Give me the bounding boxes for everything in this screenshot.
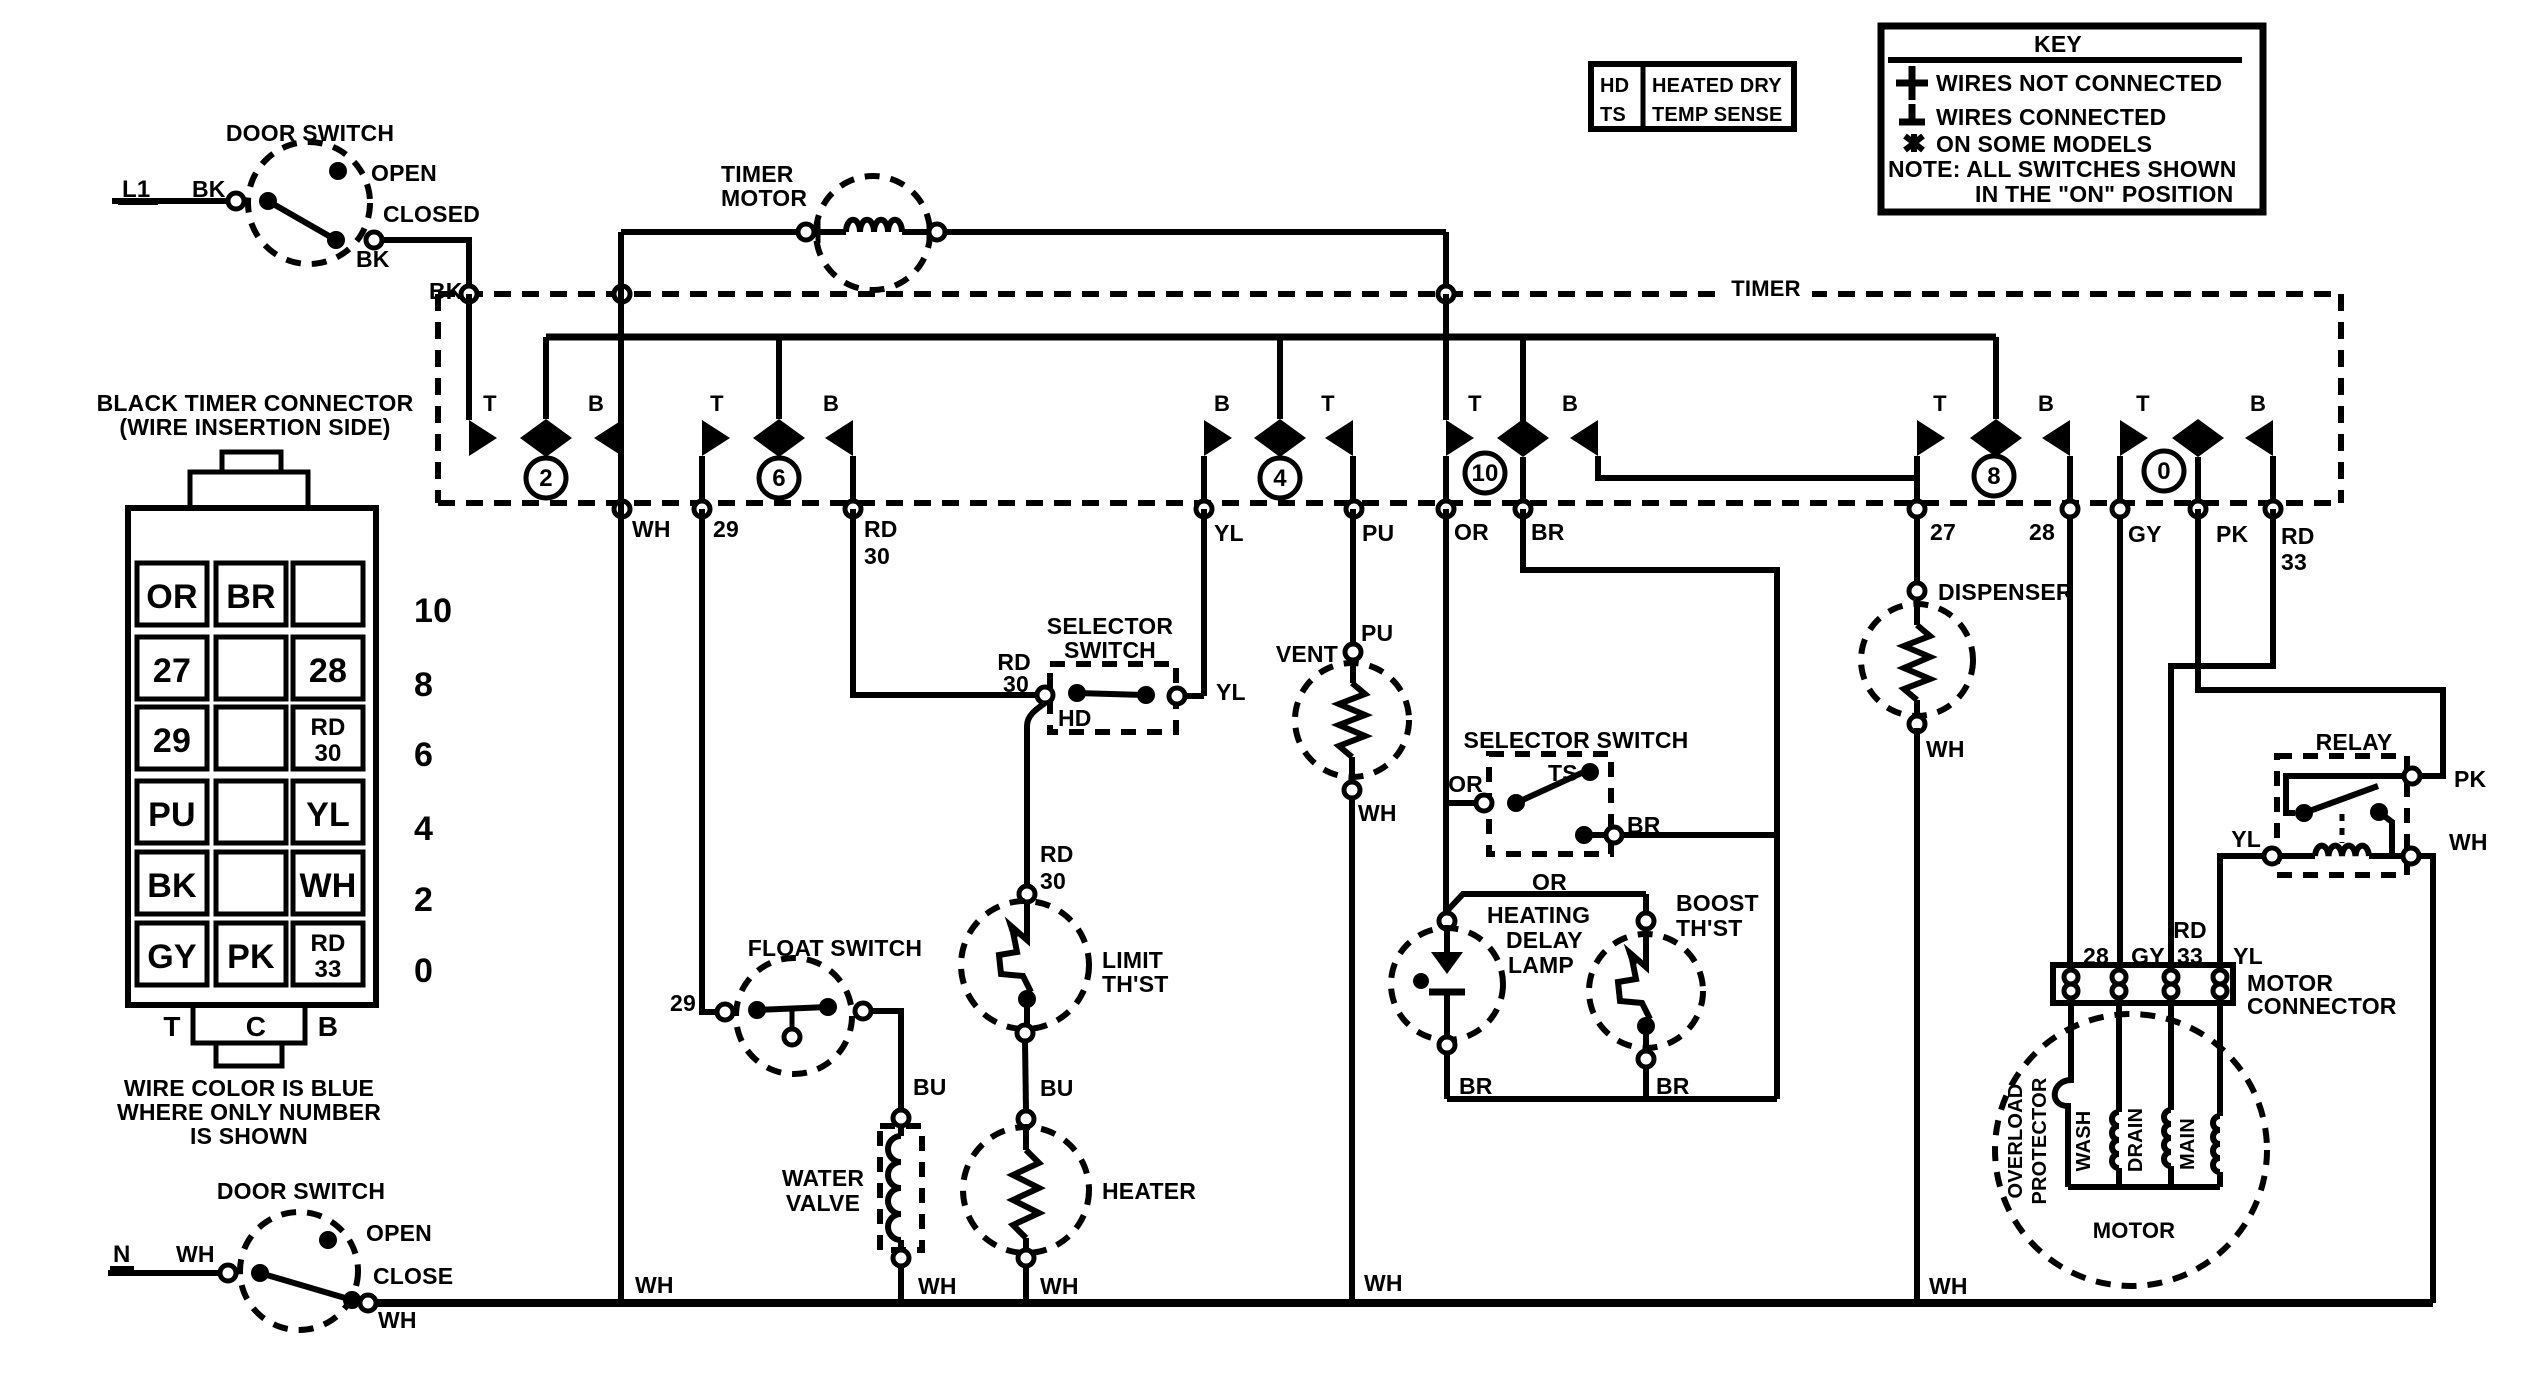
- relay coil: [2264, 853, 2315, 859]
- float switch dashed body: [736, 958, 852, 1074]
- svg-text:10: 10: [414, 592, 452, 630]
- svg-text:N: N: [113, 1241, 131, 1268]
- cam group 6 T terminal (29): [702, 420, 730, 456]
- junction RD 33: [2265, 501, 2281, 517]
- svg-text:BU: BU: [913, 1074, 947, 1100]
- cam 8 contact: [1970, 419, 2022, 457]
- svg-text:BLACK TIMER CONNECTOR: BLACK TIMER CONNECTOR: [97, 390, 414, 416]
- svg-text:WH: WH: [918, 1273, 957, 1299]
- wire BK corner to timer motor: [621, 229, 800, 235]
- dispenser dashed body: [1861, 604, 1973, 716]
- key box: [1881, 26, 2263, 212]
- cam group 10 T terminal (OR wire): [1443, 294, 1449, 420]
- vent dashed body: [1295, 663, 1409, 777]
- svg-text:MOTOR: MOTOR: [2093, 1218, 2175, 1243]
- connector cell blank r1c3: [293, 563, 363, 625]
- cam 10 contact: [1497, 419, 1549, 457]
- connector top tab: [222, 452, 281, 472]
- connector cell GY r6c1: [137, 923, 207, 985]
- wire OR to lamp and boost: [1447, 894, 1646, 911]
- connector cell YL r4c3: [293, 781, 363, 843]
- junction OR: [1438, 501, 1454, 517]
- svg-text:WH: WH: [299, 867, 356, 905]
- heater bottom terminal: [1018, 1250, 1034, 1266]
- svg-text:30: 30: [864, 543, 890, 569]
- svg-text:WASH: WASH: [2073, 1111, 2095, 1172]
- svg-text:PK: PK: [2216, 521, 2249, 547]
- relay dashed body: [2277, 756, 2407, 875]
- door switch S1 dashed body: [248, 142, 370, 264]
- bus drop to cam 6: [776, 337, 782, 419]
- door switch S2 dashed body: [240, 1212, 358, 1330]
- svg-text:BK: BK: [356, 246, 390, 272]
- svg-text:T: T: [710, 391, 724, 416]
- connector cell BR r1c2: [216, 563, 286, 625]
- bus drop to cam 8: [1993, 337, 1999, 419]
- svg-text:B: B: [1562, 391, 1578, 416]
- svg-text:B: B: [2250, 391, 2266, 416]
- cam 4 number: [1260, 458, 1300, 498]
- selector switch HD dashed body: [1050, 664, 1176, 732]
- svg-text:33: 33: [2281, 549, 2307, 575]
- svg-text:B: B: [318, 1011, 338, 1042]
- svg-text:TIMER: TIMER: [1731, 276, 1800, 301]
- boost thermostat top terminal: [1638, 913, 1654, 929]
- cam 2 number: [526, 458, 566, 498]
- junction GY: [2112, 501, 2128, 517]
- svg-text:CLOSE: CLOSE: [373, 1263, 453, 1289]
- svg-text:RD: RD: [2173, 917, 2207, 943]
- float switch blade: [748, 1001, 766, 1019]
- wire vent to rail WH: [1349, 798, 1355, 1303]
- svg-text:YL: YL: [1216, 679, 1246, 705]
- wash winding: [2116, 1003, 2122, 1112]
- cam 8 number: [1974, 456, 2014, 496]
- motor connector pin at x=2171: [2164, 970, 2178, 984]
- svg-text:BR: BR: [226, 578, 276, 616]
- junction PK: [2190, 501, 2206, 517]
- key symbol wires not connected: [1896, 80, 1928, 87]
- legend HD TS box: [1591, 64, 1794, 129]
- wire selector HD to YL: [1185, 693, 1204, 699]
- svg-text:HEATED DRY: HEATED DRY: [1652, 75, 1782, 97]
- svg-text:WIRE COLOR IS BLUE: WIRE COLOR IS BLUE: [124, 1075, 374, 1101]
- svg-text:LIMIT: LIMIT: [1102, 947, 1163, 973]
- timer motor dashed body: [816, 176, 930, 290]
- svg-text:RD: RD: [2281, 523, 2315, 549]
- svg-text:YL: YL: [2233, 943, 2263, 969]
- svg-text:30: 30: [314, 740, 341, 767]
- svg-text:YL: YL: [306, 796, 350, 834]
- wire lamp to BR return: [1444, 1053, 1450, 1099]
- junction 28: [2062, 501, 2078, 517]
- bus drop to cam 4: [1277, 337, 1283, 419]
- cam group 0 T terminal (GY): [2120, 420, 2148, 456]
- svg-text:DRAIN: DRAIN: [2125, 1108, 2147, 1172]
- junction BU water valve: [893, 1110, 909, 1126]
- svg-text:0: 0: [2157, 458, 2171, 485]
- wire boost to BR return: [1643, 1067, 1649, 1099]
- svg-text:GY: GY: [147, 938, 197, 976]
- svg-text:SWITCH: SWITCH: [1064, 637, 1156, 663]
- junction WH: [614, 501, 630, 517]
- selector HD blade: [1068, 684, 1086, 702]
- svg-text:TS: TS: [1548, 760, 1578, 786]
- svg-text:BU: BU: [1040, 1075, 1074, 1101]
- svg-text:ON SOME MODELS: ON SOME MODELS: [1936, 131, 2152, 157]
- connector bottom tab: [193, 1005, 305, 1043]
- svg-text:DOOR SWITCH: DOOR SWITCH: [217, 1178, 385, 1204]
- float switch right contact: [819, 998, 837, 1016]
- selector HD output contact: [1169, 688, 1185, 704]
- svg-text:IS SHOWN: IS SHOWN: [190, 1123, 308, 1149]
- cam group 2 T terminal (BK): [466, 294, 472, 420]
- svg-text:27: 27: [1930, 519, 1956, 545]
- cam 6 contact: [753, 419, 805, 457]
- junction BK on timer box: [461, 286, 477, 302]
- svg-text:BR: BR: [1531, 519, 1565, 545]
- wire dispenser to rail WH: [1914, 728, 1920, 1303]
- svg-text:6: 6: [414, 736, 433, 774]
- svg-text:27: 27: [153, 652, 191, 690]
- door switch S1 common pivot: [259, 192, 277, 210]
- connector cell BK r5c1: [137, 852, 207, 914]
- selector TS BR contact: [1575, 826, 1593, 844]
- svg-text:28: 28: [309, 652, 347, 690]
- motor winding common wire: [2068, 1184, 2220, 1190]
- svg-text:OVERLOAD: OVERLOAD: [2005, 1084, 2027, 1199]
- svg-text:BR: BR: [1656, 1073, 1690, 1099]
- connector cell RD|33 r6c3: [293, 923, 363, 985]
- vent top terminal: [1345, 644, 1361, 660]
- svg-text:BR: BR: [1459, 1073, 1493, 1099]
- relay switch contact: [2370, 803, 2388, 821]
- dispenser top terminal: [1909, 583, 1925, 599]
- door switch S2 blade: [260, 1273, 352, 1300]
- junction T10 wire on timer box: [1438, 286, 1454, 302]
- svg-text:TEMP SENSE: TEMP SENSE: [1652, 104, 1783, 126]
- wire 29 to float switch: [702, 509, 717, 1012]
- svg-text:2: 2: [414, 881, 433, 919]
- selector HD input terminal: [1037, 687, 1053, 703]
- svg-text:RELAY: RELAY: [2316, 729, 2393, 755]
- drain winding: [2168, 1003, 2174, 1110]
- svg-text:YL: YL: [1214, 520, 1244, 546]
- svg-text:WH: WH: [2449, 829, 2488, 855]
- svg-text:8: 8: [414, 666, 433, 704]
- svg-text:WH: WH: [1926, 736, 1965, 762]
- wire limit thermostat to heater BU: [1025, 1041, 1026, 1111]
- motor connector body: [2053, 965, 2233, 1003]
- motor dashed body: [1995, 1014, 2267, 1286]
- wire WH left drop to neutral rail: [618, 232, 624, 1303]
- svg-text:PROTECTOR: PROTECTOR: [2029, 1077, 2051, 1204]
- svg-text:T: T: [163, 1011, 180, 1042]
- svg-text:33: 33: [314, 956, 341, 983]
- wire RD 33 to motor connector: [2171, 509, 2273, 965]
- svg-text:WHERE ONLY NUMBER: WHERE ONLY NUMBER: [117, 1099, 381, 1125]
- water valve dashed body: [880, 1126, 922, 1250]
- main winding: [2217, 1003, 2223, 1116]
- cam 0 number: [2144, 451, 2184, 491]
- svg-text:WH: WH: [378, 1307, 417, 1333]
- bus drop to cam 10: [1520, 337, 1526, 422]
- relay switch common: [2295, 804, 2313, 822]
- cam 2 contact: [520, 419, 572, 457]
- motor connector pin at x=2071: [2064, 970, 2078, 984]
- door switch S2 CLOSE contact: [343, 1291, 361, 1309]
- relay switch blade: [2304, 786, 2378, 813]
- svg-text:RD: RD: [864, 516, 898, 542]
- svg-text:TH'ST: TH'ST: [1676, 915, 1743, 941]
- cam 6 number: [759, 458, 799, 498]
- wire selector TS BR to BR riser: [1622, 832, 1777, 838]
- svg-text:29: 29: [670, 990, 696, 1016]
- selector TS contact: [1581, 763, 1599, 781]
- junction 29: [694, 501, 710, 517]
- svg-text:TIMER: TIMER: [721, 161, 794, 187]
- svg-text:SELECTOR: SELECTOR: [1047, 613, 1174, 639]
- svg-text:OPEN: OPEN: [366, 1220, 432, 1246]
- svg-text:RD: RD: [310, 930, 345, 957]
- neutral rail wire WH: [366, 1299, 2433, 1307]
- connector cell 29 r3c1: [137, 707, 207, 769]
- svg-text:HD: HD: [1058, 705, 1092, 731]
- relay PK terminal: [2404, 768, 2420, 784]
- junction YL: [1196, 501, 1212, 517]
- svg-text:WH: WH: [176, 1241, 215, 1267]
- timer motor coil: [814, 229, 846, 235]
- svg-text:WH: WH: [1040, 1273, 1079, 1299]
- wire door switch to timer BK: [382, 240, 469, 420]
- connector cell blank r2c2: [216, 637, 286, 699]
- cam 4 contact: [1254, 419, 1306, 457]
- junction WH wire on timer box: [614, 286, 630, 302]
- wire N to door switch S2: [108, 1270, 220, 1276]
- svg-text:MOTOR: MOTOR: [721, 185, 807, 211]
- connector cell RD|30 r3c3: [293, 707, 363, 769]
- relay WH terminal: [2403, 848, 2419, 864]
- connector cell PK r6c2: [216, 923, 286, 985]
- wire float switch to water valve: [871, 1011, 901, 1110]
- svg-text:29: 29: [153, 722, 191, 760]
- svg-text:T: T: [1321, 391, 1335, 416]
- junction PU: [1346, 501, 1362, 517]
- wire BR from timer: [1523, 509, 1777, 1099]
- motor connector pin at x=2119: [2112, 970, 2126, 984]
- wire RD 30 to selector switch: [853, 509, 1037, 695]
- heating delay lamp bottom terminal: [1439, 1037, 1455, 1053]
- wire relay WH to rail: [2419, 856, 2433, 1303]
- svg-text:T: T: [483, 391, 497, 416]
- svg-text:C: C: [246, 1011, 266, 1042]
- boost thermostat contact glyph: [1618, 929, 1650, 1019]
- wire PU to vent: [1350, 509, 1356, 644]
- connector cell PU r4c1: [137, 781, 207, 843]
- svg-text:PU: PU: [1361, 620, 1393, 646]
- boost thermostat dashed body: [1589, 934, 1703, 1048]
- cam group 6 B terminal (RD-30): [825, 420, 853, 456]
- cam 0 contact: [2172, 419, 2224, 457]
- svg-text:BOOST: BOOST: [1676, 890, 1759, 916]
- svg-text:30: 30: [1003, 671, 1029, 697]
- svg-text:CLOSED: CLOSED: [383, 201, 480, 227]
- water valve bottom terminal: [893, 1250, 909, 1266]
- connector cell 28 r2c3: [293, 637, 363, 699]
- vent bottom terminal: [1344, 782, 1360, 798]
- dispenser bottom terminal: [1909, 716, 1925, 732]
- svg-text:PU: PU: [148, 796, 196, 834]
- wire OR drop: [1443, 509, 1449, 913]
- connector shell: [128, 508, 376, 1005]
- svg-text:LAMP: LAMP: [1508, 952, 1574, 978]
- svg-text:28: 28: [2029, 519, 2055, 545]
- connector cell blank r5c2: [216, 852, 286, 914]
- wire timer motor to T terminal cam 10: [945, 229, 1446, 235]
- junction BU heater: [1018, 1111, 1034, 1127]
- svg-text:6: 6: [772, 465, 786, 492]
- svg-text:SELECTOR SWITCH: SELECTOR SWITCH: [1464, 727, 1689, 753]
- cam group 4 T terminal (PU): [1325, 420, 1353, 456]
- selector switch TS dashed body: [1489, 754, 1611, 854]
- svg-text:T: T: [1468, 391, 1482, 416]
- wire heater to rail WH: [1023, 1266, 1029, 1303]
- timer internal bus wire: [546, 334, 1996, 341]
- svg-text:PK: PK: [2454, 766, 2487, 792]
- svg-text:4: 4: [414, 810, 433, 848]
- svg-text:29: 29: [713, 516, 739, 542]
- svg-text:FLOAT SWITCH: FLOAT SWITCH: [748, 935, 922, 961]
- svg-text:CONNECTOR: CONNECTOR: [2247, 993, 2397, 1019]
- connector cell OR r1c1: [137, 563, 207, 625]
- svg-text:WH: WH: [1929, 1273, 1968, 1299]
- svg-text:WH: WH: [1358, 800, 1397, 826]
- key symbol wires connected: [1909, 104, 1916, 122]
- svg-text:GY: GY: [2128, 521, 2162, 547]
- svg-text:OR: OR: [1454, 519, 1489, 545]
- key symbol on some models: [1905, 134, 1923, 152]
- connector cell 27 r2c1: [137, 637, 207, 699]
- svg-text:MAIN: MAIN: [2177, 1118, 2199, 1170]
- svg-text:BK: BK: [147, 867, 197, 905]
- svg-text:OR: OR: [1532, 869, 1567, 895]
- selector TS blade: [1507, 794, 1525, 812]
- svg-text:PU: PU: [1362, 520, 1394, 546]
- svg-text:VALVE: VALVE: [786, 1190, 860, 1216]
- svg-text:WH: WH: [632, 516, 671, 542]
- svg-text:OR: OR: [1448, 771, 1483, 797]
- svg-text:WATER: WATER: [782, 1165, 865, 1191]
- boost thermostat bottom terminal: [1638, 1051, 1654, 1067]
- junction RD 30: [845, 501, 861, 517]
- wire water valve to rail WH: [898, 1266, 904, 1303]
- timer dashed enclosure: [438, 291, 2341, 297]
- water valve coil: [898, 1126, 904, 1136]
- wire YL drop: [1201, 509, 1207, 696]
- svg-text:OR: OR: [146, 578, 197, 616]
- door switch S2 pivot: [251, 1264, 269, 1282]
- svg-text:B: B: [2038, 391, 2054, 416]
- door switch S1 OPEN contact: [329, 162, 347, 180]
- svg-text:HEATING: HEATING: [1487, 902, 1590, 928]
- svg-text:(WIRE INSERTION SIDE): (WIRE INSERTION SIDE): [119, 414, 390, 440]
- wire L1 to door switch: [112, 198, 228, 204]
- svg-text:RD: RD: [1040, 841, 1074, 867]
- connector cell blank r4c2: [216, 781, 286, 843]
- svg-text:0: 0: [414, 952, 433, 990]
- cam group 0 B terminal (RD-33): [2245, 420, 2273, 456]
- bus drop to cam 2: [543, 337, 549, 419]
- svg-text:YL: YL: [2231, 826, 2261, 852]
- svg-text:TH'ST: TH'ST: [1102, 971, 1169, 997]
- svg-text:T: T: [1933, 391, 1947, 416]
- motor connector pin at x=2220: [2213, 970, 2227, 984]
- overload protector: [2055, 1003, 2071, 1187]
- cam 10 number: [1465, 453, 1505, 493]
- svg-text:DELAY: DELAY: [1506, 927, 1583, 953]
- svg-text:B: B: [823, 391, 839, 416]
- svg-text:DISPENSER: DISPENSER: [1938, 579, 2073, 605]
- wire OR stub to selector TS: [1446, 800, 1476, 806]
- svg-text:T: T: [2136, 391, 2150, 416]
- svg-text:30: 30: [1040, 868, 1066, 894]
- svg-text:RD: RD: [310, 714, 345, 741]
- connector cell WH r5c3: [293, 852, 363, 914]
- wire BR return bus: [1447, 1096, 1777, 1102]
- door switch S1 CLOSED contact: [327, 231, 345, 249]
- heater dashed body: [963, 1127, 1089, 1253]
- svg-text:8: 8: [1987, 463, 2001, 490]
- cam 0 wire to PK: [2195, 457, 2201, 501]
- junction 27: [1909, 501, 1925, 517]
- cam group 4 B terminal (YL): [1204, 420, 1232, 456]
- connector cell blank r3c2: [216, 707, 286, 769]
- svg-text:PK: PK: [227, 938, 275, 976]
- limit thermostat contact glyph: [999, 902, 1031, 992]
- svg-text:KEY: KEY: [2034, 31, 2082, 57]
- door switch S2 OPEN contact: [319, 1231, 337, 1249]
- svg-text:WIRES CONNECTED: WIRES CONNECTED: [1936, 104, 2166, 130]
- dispenser element: [1914, 599, 1920, 625]
- selector TS input terminal: [1476, 795, 1492, 811]
- svg-text:VENT: VENT: [1276, 641, 1338, 667]
- svg-text:OPEN: OPEN: [371, 160, 437, 186]
- relay switch feed: [2286, 776, 2404, 813]
- wire relay YL to motor connector: [2220, 856, 2264, 965]
- float switch lower contact stub: [790, 1009, 795, 1028]
- heating delay lamp glyph: [1444, 929, 1450, 952]
- heating delay lamp dashed body: [1391, 928, 1503, 1040]
- cam group 8 B terminal (28): [2042, 420, 2070, 456]
- svg-text:2: 2: [539, 465, 553, 492]
- wire selector HD down to limit thermostat: [1027, 703, 1045, 886]
- svg-text:4: 4: [1273, 465, 1287, 492]
- vent element: [1350, 660, 1356, 683]
- svg-text:10: 10: [1471, 460, 1498, 487]
- cam group 10 B terminal to tie wire: [1570, 420, 1598, 456]
- svg-text:HD: HD: [1600, 75, 1629, 97]
- junction RD 30 at limit thermostat: [1019, 886, 1035, 902]
- svg-text:TS: TS: [1600, 104, 1626, 126]
- svg-text:WH: WH: [635, 1272, 674, 1298]
- svg-text:NOTE: ALL SWITCHES SHOWN: NOTE: ALL SWITCHES SHOWN: [1888, 156, 2237, 182]
- svg-text:B: B: [588, 391, 604, 416]
- svg-text:B: B: [1214, 391, 1230, 416]
- cam group 8 T terminal (27): [1917, 420, 1945, 456]
- cam group 2 B terminal (WH wire): [594, 420, 622, 456]
- float switch left contact: [717, 1004, 733, 1020]
- door switch S1 blade: [268, 201, 336, 240]
